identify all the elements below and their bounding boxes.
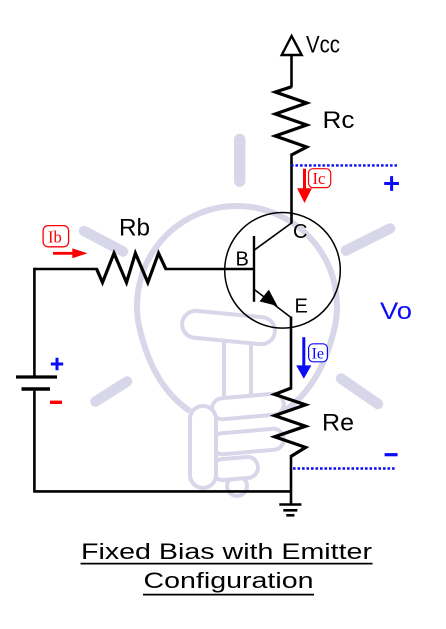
watermark bulb filament bar	[181, 310, 276, 346]
transistor emitter arrow	[260, 290, 278, 306]
svg-text:Rb: Rb	[119, 215, 150, 242]
resistor Re	[275, 388, 306, 456]
svg-text:Vcc: Vcc	[306, 32, 340, 59]
power Vcc arrow	[282, 36, 302, 55]
resistor Rc	[275, 87, 306, 155]
watermark light bulb rays	[84, 140, 390, 405]
svg-text:Configuration: Configuration	[144, 568, 314, 593]
svg-text:E: E	[295, 295, 308, 317]
current arrow Ic	[297, 169, 312, 203]
resistor Rb	[97, 253, 166, 282]
battery V1	[16, 377, 57, 389]
wire left vertical to battery	[33, 268, 36, 376]
transistor collector line	[254, 223, 292, 250]
svg-text:C: C	[293, 221, 307, 243]
watermark light bulb glass	[137, 206, 337, 411]
label box Ie	[309, 344, 328, 363]
transistor base bar	[253, 236, 255, 302]
svg-text:Ie: Ie	[312, 346, 324, 363]
wire emitter down to Re	[290, 317, 293, 390]
node dotted line minus (bottom)	[293, 455, 398, 469]
svg-text:B: B	[236, 249, 249, 271]
title text	[81, 539, 373, 595]
battery plus label	[51, 358, 63, 370]
label box Ic	[309, 169, 331, 188]
svg-text:Ic: Ic	[313, 169, 326, 188]
svg-text:Vo: Vo	[380, 298, 412, 325]
wire battery to Rb	[34, 268, 97, 271]
node dotted line plus (top)	[291, 165, 399, 191]
watermark bulb stem	[224, 330, 251, 412]
wire Rc to collector	[290, 154, 293, 224]
current arrow Ie	[296, 337, 311, 379]
svg-text:Fixed Bias with Emitter: Fixed Bias with Emitter	[81, 539, 372, 564]
wire Vcc to Rc	[290, 55, 293, 88]
wire battery to bottom rail	[34, 391, 292, 492]
transistor emitter line	[254, 289, 291, 317]
wire Rb to base	[165, 268, 255, 271]
svg-text:Ib: Ib	[48, 228, 62, 247]
transistor Q1 circle	[225, 212, 341, 328]
current arrow Ib	[53, 248, 88, 258]
ground	[279, 505, 301, 516]
svg-text:Re: Re	[322, 410, 354, 437]
label box Ib	[43, 226, 69, 247]
watermark bulb cap	[190, 393, 285, 488]
svg-text:Rc: Rc	[323, 107, 355, 134]
battery minus label	[50, 401, 62, 404]
watermark bulb tip	[227, 476, 247, 496]
wire Re to ground	[290, 455, 293, 505]
